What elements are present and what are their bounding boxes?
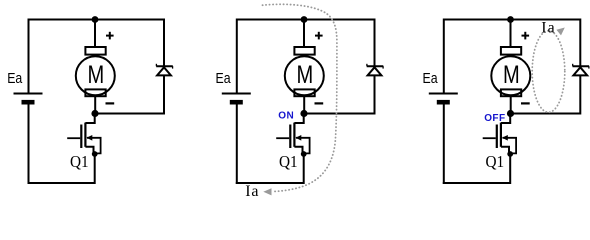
- current path Ia dotted ellipse (freewheel loop): [532, 31, 565, 113]
- current arrow (Ia, pointing left): [263, 188, 271, 195]
- battery Ea (cell symbol): [222, 94, 251, 185]
- svg-text:M: M: [296, 61, 313, 88]
- wire: top rail: [444, 19, 581, 21]
- battery Ea (cell symbol): [429, 94, 458, 185]
- svg-text:Ea: Ea: [423, 70, 439, 86]
- node: top junction: [92, 16, 99, 23]
- motor M (circle with brush terminals): [285, 47, 324, 96]
- diode D (freewheel, cathode up): [573, 64, 590, 76]
- wire: motor bottom lead: [510, 96, 512, 114]
- wire: diode branch top: [163, 19, 165, 67]
- svg-text:M: M: [503, 61, 520, 88]
- node: top junction: [301, 16, 308, 23]
- wire: bottom rail: [28, 182, 95, 184]
- wire: top rail: [237, 19, 375, 21]
- wire: diode branch bottom: [579, 75, 581, 114]
- wire: motor top lead: [510, 20, 512, 48]
- node: motor bottom junction: [91, 110, 98, 117]
- wire: bottom rail: [443, 182, 510, 184]
- diode D (freewheel, cathode up): [156, 64, 173, 76]
- polarity label -: [106, 102, 115, 104]
- current path Ia dotted loop (ON state): [263, 4, 337, 191]
- motor M (circle with brush terminals): [491, 47, 530, 96]
- svg-text:Q1: Q1: [70, 154, 89, 172]
- svg-text:Ia: Ia: [541, 20, 555, 37]
- circuit 3: MOSFET OFF state: [423, 16, 590, 184]
- wire: motor bottom lead: [94, 96, 96, 114]
- wire: diode branch top: [374, 19, 376, 67]
- wire: left branch down to battery: [236, 19, 238, 94]
- svg-text:Ea: Ea: [7, 70, 23, 86]
- svg-text:M: M: [87, 61, 104, 88]
- wire: left branch down to battery: [28, 19, 30, 94]
- node: top junction: [507, 16, 514, 23]
- wire: diode branch bottom: [374, 75, 376, 114]
- wire: junction to diode bottom: [95, 113, 164, 115]
- wire: junction to diode bottom: [511, 113, 581, 115]
- polarity label -: [521, 102, 530, 104]
- polarity label -: [315, 102, 324, 104]
- svg-text:Ia: Ia: [245, 183, 259, 200]
- transistor Q1 (N-ch MOSFET): [276, 114, 309, 185]
- current arrow (Ia, pointing up-right): [556, 28, 564, 36]
- svg-text:Q1: Q1: [486, 154, 505, 172]
- svg-text:Q1: Q1: [279, 154, 298, 172]
- wire: diode branch bottom: [163, 75, 165, 114]
- wire: motor bottom lead: [303, 96, 305, 114]
- svg-text:ON: ON: [278, 110, 294, 121]
- node: motor bottom junction: [300, 110, 307, 117]
- wire: motor top lead: [94, 20, 96, 48]
- wire: left branch down to battery: [443, 19, 445, 94]
- polarity label +: [522, 32, 530, 40]
- circuit 1: MOSFET chopper, no drive state shown: [7, 16, 173, 184]
- motor M (circle with brush terminals): [76, 47, 115, 96]
- transistor Q1 (N-ch MOSFET): [67, 114, 100, 185]
- diode D (freewheel, cathode up): [367, 64, 384, 76]
- wire: motor top lead: [303, 20, 305, 48]
- battery Ea (cell symbol): [14, 94, 43, 185]
- wire: bottom rail: [236, 182, 304, 184]
- svg-text:OFF: OFF: [484, 113, 505, 124]
- wire: junction to diode bottom: [304, 113, 375, 115]
- node: motor bottom junction: [507, 110, 514, 117]
- polarity label +: [106, 32, 114, 40]
- polarity label +: [315, 32, 323, 40]
- wire: diode branch top: [579, 19, 581, 67]
- wire: top rail: [29, 19, 165, 21]
- svg-text:Ea: Ea: [216, 70, 232, 86]
- circuit 2: MOSFET ON state: [216, 16, 384, 184]
- transistor Q1 (N-ch MOSFET): [483, 114, 516, 185]
